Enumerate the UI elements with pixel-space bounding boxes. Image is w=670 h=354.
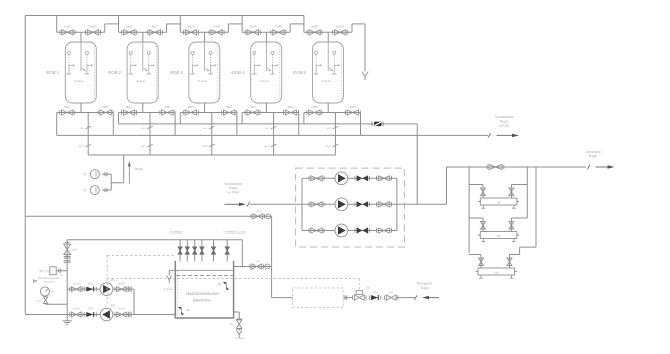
wire to tank suction — [134, 314, 175, 316]
svg-text:ёмкость: ёмкость — [193, 298, 212, 303]
wire filter 1 drain drop to lower bus — [85, 113, 91, 156]
filter vessel ФОВ 4 — [251, 42, 282, 103]
svg-text:В запасн.: В запасн. — [170, 229, 183, 233]
svg-text:КГ: КГ — [83, 173, 87, 177]
svg-text:Исходная: Исходная — [417, 282, 432, 286]
actuated valve кр10 — [353, 285, 371, 300]
svg-text:кш4: кш4 — [288, 105, 294, 109]
svg-text:кш: кш — [256, 259, 260, 263]
wire filter 4 bottom tap — [265, 103, 267, 113]
svg-text:УФ: УФ — [494, 270, 498, 274]
svg-text:кш2: кш2 — [164, 105, 170, 109]
boundary tick raw water — [414, 295, 417, 299]
svg-text:ФОВ 3: ФОВ 3 — [169, 70, 183, 75]
tank inlet nozzle 6 — [225, 240, 229, 262]
svg-text:кш12: кш12 — [73, 281, 80, 285]
valve кш17 on lower feed line — [251, 209, 271, 219]
tank inlet nozzle 3 — [193, 240, 197, 262]
control dashed enclosure vertical — [106, 256, 108, 306]
arrow backwash water in — [225, 203, 241, 205]
svg-text:ФОВ 2: ФОВ 2 — [108, 70, 122, 75]
valve UV3 inlet — [469, 255, 483, 269]
future unit (dashed box) — [293, 288, 344, 308]
wire riser bottom elbow to pump suction — [25, 314, 67, 316]
valve кш22 (filter 2 top outlet) — [147, 25, 162, 35]
svg-text:Д2: Д2 — [186, 308, 191, 312]
wire filter 2 bottom tap — [142, 103, 144, 113]
wire filter 3 bottom right drop — [236, 113, 238, 136]
wire raw water to future unit — [272, 297, 293, 299]
label Промывная Вода в РЧВ — [495, 115, 514, 128]
svg-text:Промывная: Промывная — [495, 115, 514, 119]
valve кш21 (filter 2 top inlet) — [122, 25, 137, 35]
wire filter 1 bottom valve line — [57, 112, 114, 114]
svg-text:Промывная: Промывная — [224, 182, 243, 186]
wire filter 3 top valve line — [180, 31, 228, 33]
wire filter 4 bottom right drop — [298, 113, 300, 136]
wire pump line 1 — [302, 177, 397, 179]
svg-text:кш1: кш1 — [103, 105, 109, 109]
svg-text:кш5: кш5 — [312, 25, 318, 29]
svg-text:кш2: кш2 — [126, 105, 132, 109]
wire riser to drink water line — [446, 167, 448, 204]
closed valve (pump 3 discharge) — [357, 227, 363, 233]
valve кш12 (pump 1 suction) — [70, 281, 83, 291]
valve кш34 (filter 3 bottom right) — [222, 105, 237, 115]
valve кш23 (filter 2 bottom left) — [122, 105, 137, 115]
pump Н3 — [335, 224, 348, 237]
instrument КГ1 (sampling tap) — [83, 170, 99, 179]
wire bus B (to reservoir) — [57, 134, 488, 136]
wire filter 1 bottom right drop — [112, 113, 114, 136]
valve UV3 outlet — [507, 247, 520, 268]
arrow drink water out — [596, 166, 609, 168]
label Исходная Вода — [417, 282, 432, 290]
tank overflow — [163, 270, 175, 291]
wire filter 3 bottom tap — [204, 103, 206, 113]
svg-text:ОК2: ОК2 — [88, 307, 94, 311]
level switch Д2 — [178, 307, 191, 315]
wire filter 4 bottom left drop — [241, 113, 243, 124]
wire bus C (filtrate) — [88, 154, 336, 156]
wire filter 1 top valve line — [57, 31, 105, 33]
wire pump Н1 line — [67, 288, 134, 290]
svg-text:Вода: Вода — [500, 119, 508, 123]
wire pump lines connector — [133, 289, 135, 314]
wire raw water riser (left border pipe) — [24, 16, 26, 315]
valve кш11 (filter 1 top inlet) — [60, 25, 75, 35]
valve кш43 (filter 4 bottom left) — [245, 105, 260, 115]
wire drink water line — [447, 166, 587, 168]
UV unit УФ1 — [478, 198, 519, 208]
wire feed drop filter 1 — [56, 16, 58, 33]
arrow raw water in — [428, 297, 439, 299]
wire filter 2 bottom right drop — [174, 113, 176, 136]
wire filter 4 bottom valve line — [242, 112, 299, 114]
wire feed drop filter 4 — [241, 16, 243, 33]
valve кш53 (filter 5 bottom left) — [307, 105, 322, 115]
check valve ОК on bus A — [372, 122, 383, 127]
svg-text:УФ: УФ — [497, 234, 501, 238]
svg-text:кр: кр — [60, 273, 63, 277]
wire pump discharge out — [397, 203, 447, 205]
filter vessel ФОВ 1 — [65, 42, 96, 103]
wire filter 2 top valve line — [119, 31, 167, 33]
UV unit УФ2 — [478, 232, 519, 242]
wire raw water segment — [343, 295, 352, 299]
wire UV inlet rail — [468, 167, 470, 253]
svg-text:кш8: кш8 — [214, 25, 220, 29]
pump station enclosure (dashed) — [296, 168, 405, 247]
arrow backwash water out — [497, 134, 514, 136]
svg-text:Вход: Вход — [135, 167, 143, 171]
closed valve (pump 1 discharge) — [357, 175, 363, 181]
flanges on riser — [64, 257, 71, 263]
svg-text:кш14: кш14 — [118, 281, 125, 285]
wire filter 2 air header elbow — [167, 24, 181, 32]
label Питьевая Вода — [585, 150, 600, 158]
check valve ОК3 — [369, 290, 381, 300]
filter vessel ФОВ 2 — [127, 42, 158, 103]
valve кш16 raw water — [384, 290, 397, 301]
valve кш33 (pump 3 outlet) — [378, 228, 389, 233]
svg-text:кш7: кш7 — [79, 144, 85, 148]
boundary tick drink water — [587, 165, 590, 169]
valve кш31 (filter 3 top inlet) — [184, 25, 199, 35]
filter vessel ФОВ 5 — [313, 42, 344, 103]
valve кш15 (pump 2 discharge) — [115, 307, 128, 317]
svg-text:УФ: УФ — [497, 200, 501, 204]
svg-text:Н2: Н2 — [111, 304, 115, 308]
svg-text:кш7: кш7 — [152, 25, 158, 29]
wire pump Н2 line — [67, 314, 134, 316]
label Промывная Вода из РЧВ — [224, 182, 243, 195]
control dashed drop to actuator — [358, 279, 360, 291]
svg-text:кш3: кш3 — [188, 25, 194, 29]
svg-text:6 атм: 6 атм — [136, 79, 145, 83]
valve UV2 inlet — [469, 218, 485, 232]
svg-text:кш6: кш6 — [90, 25, 96, 29]
wire lower feed line to tank section — [25, 215, 271, 217]
wire filter 1 air header elbow — [105, 24, 119, 32]
tank Накопительная ёмкость — [175, 261, 233, 318]
svg-text:В: В — [52, 290, 54, 294]
wire filter 5 bottom right drop — [360, 113, 362, 136]
wire backwash inlet to suction header — [250, 203, 302, 205]
svg-text:6 атм: 6 атм — [260, 79, 269, 83]
wire top feed bus — [25, 15, 304, 17]
valve кш42 (filter 4 top outlet) — [271, 25, 286, 35]
wire filter 3 bottom valve line — [180, 112, 237, 114]
wire pump line 3 — [302, 230, 397, 232]
wire pump line 2 — [302, 203, 397, 205]
valve кш23 (pump 3 suction) — [311, 228, 322, 233]
svg-text:Н живой 6.1 экр: Н живой 6.1 экр — [224, 229, 246, 233]
flex joint pump 2 — [129, 312, 131, 318]
valve UV1 inlet — [469, 185, 485, 199]
valve кш12 (filter 1 top outlet) — [86, 25, 101, 35]
valve UV2 outlet — [509, 218, 527, 232]
valve кш31 (pump 1 outlet) — [378, 176, 389, 181]
wire elbow down to tank bypass — [234, 240, 243, 267]
svg-text:ОК3: ОК3 — [372, 290, 378, 294]
wire feed drop filter 3 — [179, 16, 181, 33]
valve кш33 (filter 3 bottom left) — [183, 105, 198, 115]
svg-text:кш3: кш3 — [188, 105, 194, 109]
svg-text:6 атм: 6 атм — [198, 79, 207, 83]
wire feed drop filter 2 — [118, 16, 120, 33]
valve кш40 on drink water line — [489, 164, 502, 169]
check valve ОК2 — [85, 307, 97, 317]
svg-text:Вода: Вода — [589, 154, 597, 158]
level switch Д1 — [217, 282, 229, 290]
drain ground symbol — [63, 321, 72, 324]
svg-text:Накопительная: Накопительная — [186, 291, 220, 296]
svg-text:в РЧВ: в РЧВ — [499, 124, 509, 128]
svg-text:кш7: кш7 — [264, 144, 270, 148]
svg-text:ФОВ 1: ФОВ 1 — [46, 70, 60, 75]
annotation arrow Вход — [128, 161, 143, 184]
pump Н1 — [100, 278, 115, 295]
valve кр9 (gauge) — [37, 297, 67, 304]
svg-text:кш: кш — [257, 209, 261, 213]
svg-text:Питьевая: Питьевая — [585, 150, 600, 154]
wire raw water inlet — [396, 297, 415, 299]
tank inlet nozzle 2 — [185, 240, 189, 262]
check valve ОК1 — [85, 281, 97, 291]
svg-text:кш15: кш15 — [118, 307, 125, 311]
svg-text:Вода: Вода — [229, 186, 237, 190]
svg-text:кш10: кш10 — [336, 25, 344, 29]
svg-text:кш1: кш1 — [64, 25, 70, 29]
valve кш54 (filter 5 bottom right) — [345, 105, 360, 115]
wire filter 5 top tap — [327, 32, 329, 42]
valve кш51 (filter 5 top inlet) — [307, 25, 322, 35]
wire filter 1 bottom tap — [80, 103, 82, 113]
valve кш14 (filter 1 bottom right) — [98, 105, 113, 115]
svg-text:6 прим: 6 прим — [235, 336, 244, 340]
valve кш32 (filter 3 top outlet) — [209, 25, 224, 35]
wire bus A (backwash collect) — [119, 123, 418, 125]
svg-text:кш1: кш1 — [64, 105, 70, 109]
svg-text:кш5: кш5 — [311, 105, 317, 109]
wire filter 4 drain drop to lower bus — [271, 113, 277, 156]
valve кш13 (pump 2 suction) — [70, 307, 83, 317]
wire UV outer outlet rail — [520, 167, 536, 247]
svg-text:из РЧВ: из РЧВ — [227, 191, 239, 195]
svg-text:кш13: кш13 — [73, 307, 80, 311]
closed valve (pump 2 discharge) — [357, 201, 363, 207]
label Автоматический клапан — [38, 276, 60, 283]
svg-text:6 атм: 6 атм — [322, 79, 331, 83]
boundary tick backwash in — [247, 202, 250, 206]
tank drain — [230, 312, 244, 340]
svg-text:кш4: кш4 — [250, 105, 256, 109]
svg-text:клапан: клапан — [44, 279, 54, 283]
wire instrument manifold — [102, 172, 111, 192]
valve кш18 on tank outlet line — [242, 259, 271, 269]
svg-text:кр: кр — [367, 285, 370, 289]
valve кш41 (filter 4 top inlet) — [245, 25, 260, 35]
solenoid ДО 1.1 — [39, 267, 67, 277]
wire filter 1 top tap — [80, 32, 82, 42]
wire raw water riser right — [271, 216, 273, 297]
instrument КГ2 (sampling tap) — [83, 186, 99, 195]
funnel vent (air header drain) — [362, 72, 369, 77]
wire filter 4 air header elbow — [290, 24, 304, 32]
wire filter 3 top tap — [204, 32, 206, 42]
wire feed drop filter 5 — [303, 16, 305, 33]
valve кш52 (filter 5 top outlet) — [333, 25, 348, 35]
valve кш13 (filter 1 bottom left) — [60, 105, 75, 115]
valve кш22 (pump 2 suction) — [311, 202, 322, 207]
wire filter 3 drain drop to lower bus — [209, 113, 215, 156]
wire filter 5 top valve line — [304, 31, 352, 33]
wire filter 5 air header elbow — [352, 24, 365, 72]
pump Н2 — [335, 198, 348, 211]
flag symbol — [34, 280, 37, 283]
wire filter 2 bottom valve line — [119, 112, 176, 114]
svg-text:ФОВ 4: ФОВ 4 — [231, 70, 245, 75]
flex joint pump 1 — [129, 286, 131, 292]
svg-text:кр8: кр8 — [72, 247, 77, 251]
wire pump discharge header — [396, 178, 398, 230]
svg-text:кш5: кш5 — [350, 105, 356, 109]
pump Н1 — [335, 172, 348, 185]
svg-text:Д1: Д1 — [217, 282, 222, 286]
tank inlet nozzle 1 — [178, 240, 182, 262]
valve кш21 (pump 1 suction) — [311, 176, 322, 181]
wire filter 3 air header elbow — [228, 24, 242, 32]
svg-text:кш3: кш3 — [226, 105, 232, 109]
wire filter 5 bottom valve line — [304, 112, 361, 114]
wire filter 4 top tap — [265, 32, 267, 42]
svg-text:ОК1: ОК1 — [88, 281, 94, 285]
wire filter 2 top tap — [142, 32, 144, 42]
svg-text:6 прим: 6 прим — [163, 287, 172, 291]
valve кш32 (pump 2 outlet) — [378, 202, 389, 207]
valve кр8 (auto fill) — [64, 242, 77, 256]
svg-text:ФОВ 5: ФОВ 5 — [293, 70, 307, 75]
svg-text:Вода: Вода — [421, 286, 429, 290]
svg-text:ДО 1.1: ДО 1.1 — [39, 269, 49, 273]
pump Н2 — [100, 304, 115, 321]
wire filter 1 bottom left drop — [56, 113, 58, 136]
svg-text:кш4: кш4 — [250, 25, 256, 29]
valve кш14 (pump 1 discharge) — [115, 281, 128, 291]
svg-text:кш9: кш9 — [275, 25, 281, 29]
tank inlet nozzle 5 — [212, 240, 216, 262]
filter vessel ФОВ 3 — [189, 42, 220, 103]
tank inlet nozzle 4 — [200, 240, 204, 262]
svg-text:кр9: кр9 — [37, 299, 42, 303]
valve UV1 outlet — [509, 185, 527, 199]
svg-text:КГ: КГ — [83, 189, 87, 193]
svg-text:кш7: кш7 — [326, 144, 332, 148]
wire filter 5 bottom tap — [327, 103, 329, 113]
wire tank feed line — [67, 239, 242, 241]
svg-text:6 атм: 6 атм — [75, 79, 84, 83]
wire pump suction header — [301, 178, 303, 230]
valve кш24 (filter 2 bottom right) — [160, 105, 175, 115]
pressure gauge В — [40, 287, 53, 296]
wire filter 2 bottom left drop — [118, 113, 120, 124]
boundary tick backwash out — [488, 133, 491, 137]
control dashed level line — [107, 278, 359, 280]
wire filter 3 bottom left drop — [179, 113, 181, 124]
wire filter 2 drain drop to lower bus — [147, 113, 153, 156]
wire instrument branch from bus C — [111, 155, 124, 183]
control dashed enclosure horizontal — [107, 255, 175, 257]
wire UV outlet rail — [526, 167, 528, 218]
UV unit УФ3 — [476, 268, 517, 278]
svg-text:кш2: кш2 — [126, 25, 132, 29]
wire filter 5 bottom left drop — [303, 113, 305, 124]
wire riser bus A to pump discharge — [416, 124, 418, 204]
svg-text:кш7: кш7 — [141, 144, 147, 148]
wire filter 4 top valve line — [242, 31, 290, 33]
label Накопительная ёмкость — [186, 291, 220, 303]
svg-text:кш7: кш7 — [202, 144, 208, 148]
valve кш44 (filter 4 bottom right) — [284, 105, 299, 115]
wire filter 5 drain drop to lower bus — [333, 113, 339, 156]
wire automatic valve riser — [66, 240, 68, 321]
